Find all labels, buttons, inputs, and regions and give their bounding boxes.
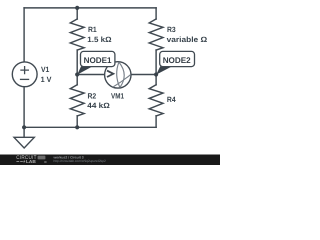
wire R3 to node2 (155, 50, 157, 74)
VM1 lens arc inner (117, 62, 120, 87)
wire left rail upper (23, 8, 25, 62)
wire left rail lower (23, 87, 25, 128)
voltmeter VM1 circle (105, 62, 131, 88)
footer bar (0, 155, 220, 166)
junction dot top (75, 6, 79, 10)
svg-text:V1: V1 (41, 65, 50, 74)
voltage source V1 circle (12, 62, 37, 87)
svg-text:http://circuitlab.com/c/9q2upw: http://circuitlab.com/c/9q2upws42kp2 (54, 159, 106, 163)
wire R2 to bottom rail (76, 116, 78, 127)
V1 plus sign (20, 66, 29, 74)
wire node1 to R2 (76, 75, 78, 85)
wire bottom rail (24, 126, 156, 128)
wire top rail (24, 7, 156, 9)
svg-text:LAB: LAB (26, 159, 36, 164)
junction dot node B (154, 72, 158, 76)
wire node2 to R4 (155, 75, 157, 85)
wire top rail to R1 (76, 8, 78, 19)
node NODE2 callout tail (156, 66, 172, 74)
CircuitLab logo badge block (38, 156, 46, 160)
V1 minus sign (20, 78, 29, 80)
wire ground stub (23, 127, 25, 137)
svg-text:R2: R2 (88, 91, 97, 100)
wire node1 to voltmeter (77, 74, 105, 76)
junction dot bottom (75, 125, 79, 129)
node NODE1 box (81, 51, 115, 66)
resistor R2 (70, 85, 84, 116)
svg-text:R4: R4 (167, 95, 176, 104)
ground symbol (14, 137, 34, 148)
wire R1 to node1 (76, 50, 78, 74)
VM1 needle arc (113, 74, 131, 87)
resistor R4 (149, 85, 163, 116)
resistor R3 (149, 19, 163, 50)
svg-text:NODE1: NODE1 (84, 56, 112, 65)
junction dot node A (75, 72, 79, 76)
svg-text:VM1: VM1 (111, 91, 125, 100)
node NODE2 box (160, 51, 195, 66)
svg-text:variable Ω: variable Ω (167, 35, 208, 44)
wire right rail top stub (155, 8, 157, 19)
svg-text:1 V: 1 V (41, 75, 53, 84)
node NODE1 callout tail (77, 66, 92, 74)
svg-text:R3: R3 (167, 25, 176, 34)
junction dot ground (22, 125, 26, 129)
VM1 chevron (107, 71, 113, 77)
wire voltmeter to node2 (131, 74, 156, 76)
wire R4 to bottom rail (155, 116, 157, 127)
CircuitLab logo lower line with bolt and LAB (16, 159, 46, 164)
VM1 lens arc outer (119, 62, 124, 87)
resistor R1 (70, 19, 84, 50)
svg-text:1.5 kΩ: 1.5 kΩ (87, 35, 111, 44)
svg-text:R1: R1 (88, 25, 97, 34)
svg-text:NODE2: NODE2 (163, 56, 191, 65)
svg-text:44 kΩ: 44 kΩ (87, 101, 109, 110)
